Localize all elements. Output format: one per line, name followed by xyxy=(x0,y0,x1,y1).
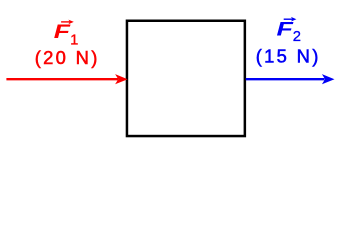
force arrow F2 (blue, pointing right out of box) xyxy=(246,75,334,83)
label F1 vector symbol xyxy=(54,20,79,49)
F1 overbar arrow xyxy=(61,21,71,23)
force arrow F1 (red, pointing right into box) xyxy=(6,75,126,83)
svg-text:2: 2 xyxy=(293,29,301,45)
box (block/mass) xyxy=(127,21,245,136)
wire: F2 shaft xyxy=(246,78,325,80)
wire: F1 shaft xyxy=(6,78,118,80)
F2 overbar arrow xyxy=(284,18,294,20)
svg-text:(20 N): (20 N) xyxy=(35,47,100,68)
F2 arrowhead xyxy=(323,75,334,83)
F1 arrowhead xyxy=(116,75,127,83)
svg-text:F: F xyxy=(54,22,72,43)
svg-text:(15 N): (15 N) xyxy=(256,46,321,67)
label F2 vector symbol xyxy=(277,17,301,45)
svg-text:1: 1 xyxy=(70,33,78,49)
